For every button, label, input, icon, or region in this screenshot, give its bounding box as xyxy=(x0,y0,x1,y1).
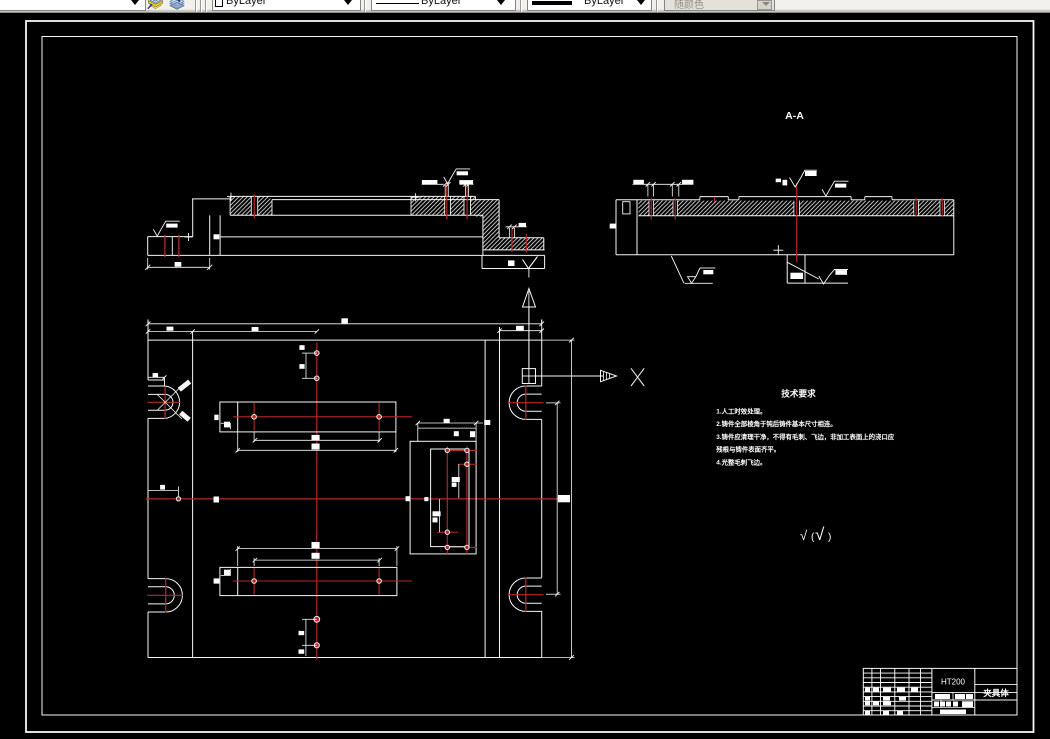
svg-text:): ) xyxy=(828,532,831,543)
svg-text:1.人工时效处理。: 1.人工时效处理。 xyxy=(716,407,766,416)
svg-text:√: √ xyxy=(815,525,825,544)
svg-text:技术要求: 技术要求 xyxy=(781,387,816,398)
svg-text:√: √ xyxy=(800,528,808,543)
svg-text:HT200: HT200 xyxy=(941,678,966,687)
svg-text:3.铸件应清理干净，不得有毛刺、飞边，非加工表面上的浇口应: 3.铸件应清理干净，不得有毛刺、飞边，非加工表面上的浇口应 xyxy=(716,432,894,441)
svg-text:夹具体: 夹具体 xyxy=(983,688,1009,698)
svg-text:A-A: A-A xyxy=(785,110,804,122)
svg-text:2.铸件全部棱角于钝后铸件基本尺寸相连。: 2.铸件全部棱角于钝后铸件基本尺寸相连。 xyxy=(716,419,836,428)
svg-text:残根与铸件表面齐平。: 残根与铸件表面齐平。 xyxy=(716,445,780,454)
svg-text:4.光整毛刺飞边。: 4.光整毛刺飞边。 xyxy=(716,457,766,466)
